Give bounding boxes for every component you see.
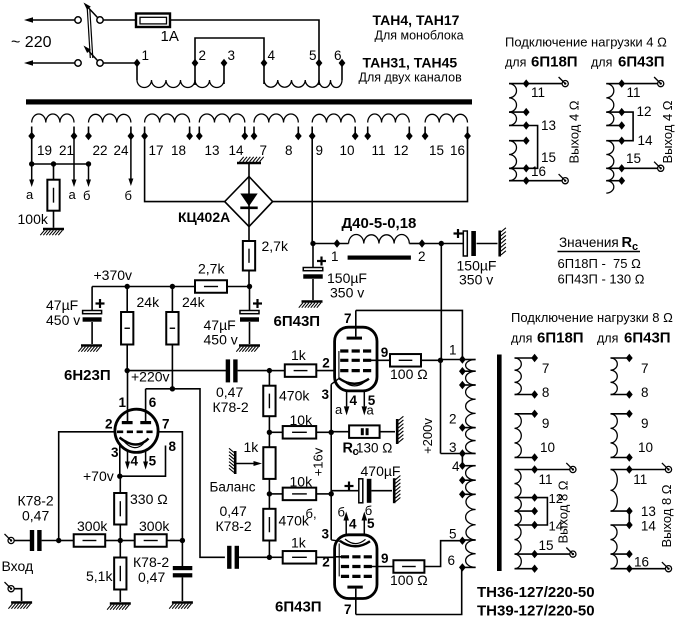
link 13-14 direct (6P43P-8ohm) [628, 511, 630, 525]
tap 7 (6P18P-8ohm) [531, 354, 538, 362]
svg-text:для: для [505, 56, 526, 70]
resistor R 10k upper [269, 431, 282, 433]
switch S1 pole upper [97, 17, 103, 23]
secondary tap 9 [309, 132, 316, 140]
node +B rail top [439, 241, 444, 246]
wire tap24 drop with arrow b [130, 136, 132, 179]
cathode rail x=331 [330, 384, 332, 432]
resistor R 100k [53, 164, 55, 180]
svg-text:300k: 300k [77, 518, 108, 534]
tap 14 (6P43P-4ohm) [618, 137, 625, 145]
tap 15 (6P18P-8ohm) [531, 550, 538, 558]
svg-text:100 Ω: 100 Ω [390, 572, 428, 588]
node +370 right [247, 284, 252, 289]
node A [267, 430, 272, 435]
svg-text:7: 7 [542, 361, 550, 376]
svg-text:1: 1 [449, 343, 457, 358]
svg-text:5: 5 [449, 527, 457, 542]
svg-text:21: 21 [59, 143, 74, 158]
T2 tap 1 [459, 355, 466, 363]
svg-text:5,1k: 5,1k [86, 568, 113, 584]
svg-text:0,47: 0,47 [216, 384, 243, 400]
wire tap17 to bridge [145, 136, 225, 202]
ground above bridge [248, 164, 250, 177]
secondary tap 14 [241, 132, 248, 140]
ground under 0.47 cap [172, 601, 193, 604]
svg-text:10: 10 [540, 440, 555, 455]
svg-text:для: для [511, 332, 532, 346]
V3 cathode exit diagonal [331, 540, 340, 541]
winding 6P43P-8ohm section 9-10 [611, 413, 630, 415]
svg-text:14: 14 [229, 143, 245, 158]
svg-text:а: а [367, 403, 375, 418]
wire pin6 to corner [146, 389, 225, 558]
svg-text:2: 2 [322, 555, 330, 570]
wire switch to fuse [103, 19, 136, 21]
resistor R 100 Om lower [393, 560, 424, 573]
V3 anode bar and pin7 drop [347, 586, 362, 589]
svg-text:б,: б, [306, 506, 317, 521]
svg-text:15: 15 [539, 538, 554, 553]
T2 tap mid d [459, 490, 466, 498]
tap 16 (6P43P-8ohm) [626, 565, 633, 573]
terminal out top (6P18P-4ohm) [562, 81, 568, 87]
svg-text:б: б [83, 188, 90, 203]
svg-text:8: 8 [285, 143, 293, 158]
T2 tap 2 [459, 423, 466, 431]
svg-text:17: 17 [149, 143, 164, 158]
svg-text:7: 7 [344, 602, 352, 617]
svg-text:11: 11 [627, 85, 641, 100]
node +70v [117, 474, 122, 479]
tap 12 unlabeled (6P18P-4ohm) [523, 108, 530, 116]
ground under 100k [53, 211, 55, 228]
node B [267, 491, 272, 496]
secondary tap 18 [186, 132, 193, 140]
V2 heater arrow pin4 [346, 391, 348, 407]
node 470uF junction [329, 491, 334, 496]
svg-text:Значения: Значения [559, 235, 619, 250]
svg-text:1: 1 [119, 395, 127, 410]
svg-text:24k: 24k [137, 294, 161, 310]
V3 heater arrow pin4 (up) [345, 521, 347, 535]
svg-text:6П43П: 6П43П [624, 330, 671, 347]
svg-text:4: 4 [350, 393, 358, 408]
secondary tap 17 [141, 132, 148, 140]
T2 tap mid a [459, 367, 466, 375]
tube V1 6N23P envelope [115, 409, 158, 452]
svg-text:а: а [69, 187, 77, 202]
svg-text:ТН36-127/220-50: ТН36-127/220-50 [477, 584, 595, 601]
V2 pin7 top wire to transformer tap1 [356, 310, 463, 359]
tap 14 (6P18P-8ohm) [531, 521, 538, 529]
svg-text:10k: 10k [290, 412, 314, 428]
svg-text:19: 19 [37, 143, 52, 158]
wire 300k #2 [120, 540, 134, 542]
svg-text:2: 2 [199, 48, 207, 63]
tap 10 (6P43P-8ohm) [626, 453, 633, 461]
primary tap 4 [261, 59, 268, 67]
winding 6P43P-8ohm section 7-8 [611, 357, 630, 359]
node link-22 [86, 161, 91, 166]
svg-text:6П43П: 6П43П [274, 313, 321, 330]
tap 9 (6P18P-8ohm) [531, 410, 538, 418]
V1 anode plate pin1 [127, 371, 129, 423]
node choke input [310, 241, 315, 246]
V1 cathode loop pin3-pin8 [120, 445, 166, 477]
svg-text:4: 4 [349, 517, 357, 532]
tap 12 (6P18P-8ohm) [531, 493, 538, 501]
choke L1 terminal 1 [334, 239, 341, 247]
V2 cathode arcs [339, 378, 369, 384]
svg-text:16: 16 [634, 555, 649, 570]
svg-text:6П43П - 130 Ω: 6П43П - 130 Ω [558, 272, 645, 287]
svg-text:16: 16 [531, 164, 546, 179]
wire 470k2 to node C [268, 541, 270, 558]
svg-text:9: 9 [381, 345, 389, 360]
svg-text:0,47: 0,47 [138, 569, 165, 585]
V1 heater arrow pin5 [145, 452, 147, 462]
svg-text:2: 2 [449, 412, 457, 427]
resistor Rc 130 Om [331, 431, 349, 433]
svg-text:для: для [597, 332, 618, 346]
svg-text:450 v: 450 v [204, 332, 238, 348]
svg-text:~ 220: ~ 220 [11, 34, 52, 51]
svg-text:47µF: 47µF [46, 297, 78, 313]
balance wiper arrow [237, 463, 254, 465]
resistor R 300k #2 [135, 534, 167, 547]
secondary tap 8 [295, 132, 302, 140]
switch linkage [87, 9, 90, 58]
V2 grid row 1 dashes [340, 349, 372, 352]
V3 grid row 1 dashes [341, 555, 372, 558]
node input-grid junction [56, 538, 61, 543]
choke L1 winding [349, 235, 410, 244]
secondary tap 21 [71, 132, 78, 140]
+220 rail wire [126, 345, 128, 371]
wire link 19-22 [32, 163, 89, 165]
svg-text:Для двух каналов: Для двух каналов [359, 71, 463, 85]
svg-text:К78-2: К78-2 [213, 399, 249, 415]
input terminal Vkhod [8, 537, 14, 543]
node 24k2 bottom [170, 386, 175, 391]
secondary winding 15-16 [424, 127, 426, 137]
tap 11 (6P18P-8ohm) [531, 465, 538, 473]
terminal 16 (6P43P-8ohm) [665, 566, 671, 572]
svg-text:ТАН4, ТАН17: ТАН4, ТАН17 [373, 12, 460, 28]
jumper wire tap2-tap4 [195, 38, 264, 63]
secondary winding 19-21 [31, 127, 33, 137]
winding 6P18P-8ohm section 7-8 [515, 357, 535, 359]
svg-text:6: 6 [149, 395, 157, 410]
capacitor C 0.47 K78-2 lower coupling [227, 546, 231, 569]
svg-text:10: 10 [340, 143, 355, 158]
svg-text:Выход 8 Ω: Выход 8 Ω [556, 480, 571, 543]
wire V1 pin7 down [158, 432, 182, 541]
svg-text:3: 3 [322, 527, 330, 542]
tap 13 unlabeled (6P18P-8ohm) [531, 507, 538, 515]
svg-text:3: 3 [322, 387, 330, 402]
svg-text:14: 14 [641, 519, 657, 534]
svg-text:R: R [622, 235, 633, 251]
svg-text:Д40-5-0,18: Д40-5-0,18 [342, 215, 417, 232]
svg-text:8: 8 [641, 385, 649, 400]
svg-text:1: 1 [142, 48, 150, 63]
wire tap21 drop with arrow a [73, 136, 75, 180]
svg-text:Подключение нагрузки 4 Ω: Подключение нагрузки 4 Ω [505, 35, 667, 50]
T2 tap 5 [459, 537, 466, 545]
node link-19 [29, 161, 34, 166]
tap 11 (6P18P-4ohm) [523, 79, 530, 87]
ground under C47uF left [81, 344, 102, 347]
tap 12 (6P43P-4ohm) [618, 108, 625, 116]
svg-text:12: 12 [637, 104, 652, 119]
resistor R 24k #2 [171, 287, 173, 313]
svg-text:11: 11 [372, 143, 386, 158]
svg-text:350 v: 350 v [459, 272, 493, 288]
underline Znacheniya Rc [558, 251, 641, 253]
svg-text:330 Ω: 330 Ω [130, 491, 168, 507]
svg-text:б: б [338, 505, 345, 520]
resistor R 470k lower [268, 494, 270, 509]
V3 heater arrow pin5 (up) [363, 521, 365, 535]
secondary winding 17-18 [144, 127, 146, 137]
V2 heater arrow pin5 [363, 391, 365, 407]
V2 anode bar and pin7 riser [347, 337, 362, 340]
svg-text:130 Ω: 130 Ω [356, 441, 392, 456]
resistor R 2.7k horizontal [195, 280, 227, 293]
secondary winding 7-8 [253, 127, 255, 137]
resistor R 470k upper [268, 371, 270, 386]
svg-text:100 Ω: 100 Ω [390, 366, 428, 382]
svg-text:6: 6 [334, 48, 342, 63]
arrow b from node 22 [88, 164, 90, 180]
svg-text:1: 1 [331, 249, 339, 264]
svg-text:1k: 1k [291, 347, 307, 363]
svg-text:24: 24 [114, 143, 130, 158]
resistor R 5.1k [119, 541, 121, 558]
capacitor C 150uF 350v left [312, 244, 314, 268]
tap 9 (6P43P-8ohm) [626, 410, 633, 418]
svg-text:6П18П: 6П18П [537, 330, 584, 347]
ground right of C150uF right [498, 231, 501, 257]
svg-text:100k: 100k [18, 211, 49, 227]
tap 15 (6P43P-4ohm) [618, 164, 625, 172]
AC input line L (upper) [33, 19, 78, 21]
wire +200 rail to tap3 stub [441, 453, 463, 455]
resistor R 1k lower (grid stopper) [269, 556, 282, 558]
tap 11 (6P43P-4ohm) [618, 79, 625, 87]
secondary winding 11-12 [367, 127, 369, 137]
link 13-15 (6P18P-4ohm) [526, 126, 537, 169]
node pin7 rail bottom [180, 538, 185, 543]
svg-text:КЦ402А: КЦ402А [178, 209, 230, 225]
resistor R 1k upper (grid stopper) [269, 370, 284, 372]
winding 6P43P-8ohm section 11-16 [611, 469, 630, 471]
winding 6P43P-4ohm lower section [606, 140, 621, 142]
secondary tap 15 [422, 132, 429, 140]
svg-text:ТАН31, ТАН45: ТАН31, ТАН45 [363, 55, 458, 71]
T2 core bar [497, 355, 502, 572]
fuse F1 1A [136, 14, 170, 28]
tap 14 unlabeled (6P18P-4ohm) [523, 137, 530, 145]
svg-text:4: 4 [131, 454, 139, 469]
tap 14 (6P43P-8ohm) [626, 521, 633, 529]
svg-text:11: 11 [633, 472, 647, 487]
ground under 5.1k [119, 590, 121, 603]
T2 tap mid c [459, 476, 466, 484]
tap 13 (6P18P-4ohm) [523, 121, 530, 129]
secondary tap 11 [364, 132, 371, 140]
V3 grid row 3 dashes [341, 575, 372, 578]
capacitor C 47uF 450v right [249, 287, 251, 311]
V2 grid row 2 dashes [340, 359, 372, 362]
ground right of Rc [396, 419, 399, 444]
secondary winding 9-10 [311, 127, 313, 137]
transformer T1 core bar [26, 99, 472, 104]
svg-text:470µF: 470µF [361, 463, 401, 479]
V3 grid row 2 dashes [341, 565, 372, 568]
svg-text:1А: 1А [161, 28, 179, 45]
tap 16 unlabeled (6P18P-8ohm) [531, 565, 538, 573]
tap 13 unlabeled (6P43P-4ohm) [618, 121, 625, 129]
node 24k-2 [170, 284, 175, 289]
capacitor C 47uF 450v left [91, 287, 93, 311]
resistor R 300k #1 [74, 534, 106, 547]
winding 6P18P-4ohm lower section [509, 140, 526, 142]
svg-text:0,47: 0,47 [22, 508, 49, 524]
V3 pin2 wire [335, 556, 342, 558]
ground right of 470uF [393, 478, 396, 503]
svg-text:для: для [591, 56, 612, 70]
resistor R 2.7k vertical [248, 227, 250, 241]
svg-text:5: 5 [149, 454, 157, 469]
V1 anode plate pin6 [145, 389, 147, 423]
V1 heater arrow pin4 [127, 452, 129, 462]
secondary tap 13 [196, 132, 203, 140]
ground under C150uF left [302, 300, 323, 303]
V1 grid dashed line [117, 430, 156, 433]
wire 300k2 to pin7 rail [167, 540, 183, 542]
svg-text:13: 13 [641, 504, 656, 519]
svg-text:ТН39-127/220-50: ТН39-127/220-50 [477, 603, 595, 620]
svg-text:10: 10 [638, 440, 653, 455]
secondary winding 22-24 [88, 127, 90, 137]
tap 8 (6P43P-8ohm) [626, 390, 633, 398]
svg-text:350 v: 350 v [330, 285, 364, 301]
wire 100Om lower to tap5 rail [424, 541, 462, 567]
primary tap 3 [221, 59, 228, 67]
svg-text:2: 2 [105, 417, 113, 432]
T2 link tap3-tap4 [461, 454, 463, 466]
svg-text:9: 9 [641, 416, 649, 431]
tube V2 6P43P upper envelope [335, 327, 377, 391]
AC input line N (lower) [33, 62, 78, 64]
svg-text:11: 11 [531, 85, 545, 100]
svg-text:6П18П: 6П18П [531, 54, 578, 71]
tap 16 unlabeled (6P43P-4ohm) [618, 177, 625, 185]
svg-text:+370v: +370v [94, 267, 133, 283]
svg-text:4: 4 [452, 459, 460, 474]
input ground terminal [8, 586, 14, 592]
svg-text:2,7k: 2,7k [262, 238, 289, 254]
svg-text:К78-2: К78-2 [18, 493, 54, 509]
svg-text:24k: 24k [182, 294, 206, 310]
svg-text:11: 11 [539, 472, 553, 487]
wire tap19 drop [31, 136, 33, 164]
svg-text:9: 9 [542, 416, 550, 431]
tap 7 (6P43P-8ohm) [626, 354, 633, 362]
wire pin1 riser to +220 rail [125, 368, 130, 373]
tap 16 (6P18P-4ohm) [523, 177, 530, 185]
switch S1 pole lower [97, 60, 103, 66]
svg-text:9: 9 [316, 143, 324, 158]
secondary tap 7 [251, 132, 258, 140]
svg-text:16: 16 [450, 143, 465, 158]
svg-text:+70v: +70v [83, 468, 114, 484]
primary tap 1 [134, 59, 141, 67]
svg-text:22: 22 [93, 143, 108, 158]
resistor R 10k lower [269, 493, 282, 495]
svg-text:13: 13 [205, 143, 220, 158]
svg-text:а: а [26, 187, 34, 202]
link 12-14 (6P43P-4ohm) [622, 112, 633, 141]
svg-text:13: 13 [541, 118, 556, 133]
svg-text:1k: 1k [244, 439, 260, 455]
wire choke line left [313, 243, 349, 245]
resistor R 24k #1 [126, 287, 128, 313]
capacitor C 0.47 K78-2 to ground [181, 541, 183, 567]
wire 2.7k to +370 node [248, 271, 250, 287]
bridge rectifier KTs402A [225, 177, 273, 227]
tap 15 (6P18P-4ohm) [523, 164, 530, 172]
resistor R 330 Om [119, 476, 121, 493]
terminal out bottom (6P18P-4ohm) [562, 178, 568, 184]
V3 pin7 wire to transformer tap6 [356, 567, 462, 614]
+200v rail [440, 244, 442, 361]
terminal 11 (6P18P-8ohm) [570, 466, 576, 472]
node Rc junction [329, 430, 334, 435]
wire switch to primary tap 1 [103, 62, 137, 64]
svg-text:6Н23П: 6Н23П [64, 367, 111, 384]
wire to 300k #1 [59, 540, 74, 542]
node 24k-1 [125, 284, 130, 289]
T2 tap 6 [459, 563, 466, 571]
T2 tap 3 [459, 449, 466, 457]
T2 primary lower section winding [462, 465, 475, 467]
svg-text:Выход 4 Ω: Выход 4 Ω [567, 100, 582, 163]
svg-text:14: 14 [638, 133, 654, 148]
wire to tap1 stub [441, 359, 463, 361]
svg-text:6П43П: 6П43П [275, 599, 322, 616]
svg-text:12: 12 [394, 143, 409, 158]
svg-text:К78-2: К78-2 [216, 518, 252, 534]
svg-text:9: 9 [381, 551, 389, 566]
svg-text:450 v: 450 v [46, 312, 80, 328]
terminal out bottom (6P43P-4ohm) [658, 165, 664, 171]
winding 6P18P-8ohm section 11-16 [515, 469, 535, 471]
V3 pin9 wire [368, 566, 393, 568]
svg-text:300k: 300k [139, 518, 170, 534]
svg-text:2,7k: 2,7k [198, 261, 225, 277]
winding 6P18P-8ohm section 9-10 [515, 413, 535, 415]
V2 g3 strap [338, 351, 340, 379]
balance potentiometer 1k [268, 432, 270, 447]
primary tap 5 [316, 59, 323, 67]
svg-text:6: 6 [448, 553, 456, 568]
svg-text:Для моноблока: Для моноблока [375, 29, 464, 43]
svg-text:2: 2 [322, 356, 330, 371]
